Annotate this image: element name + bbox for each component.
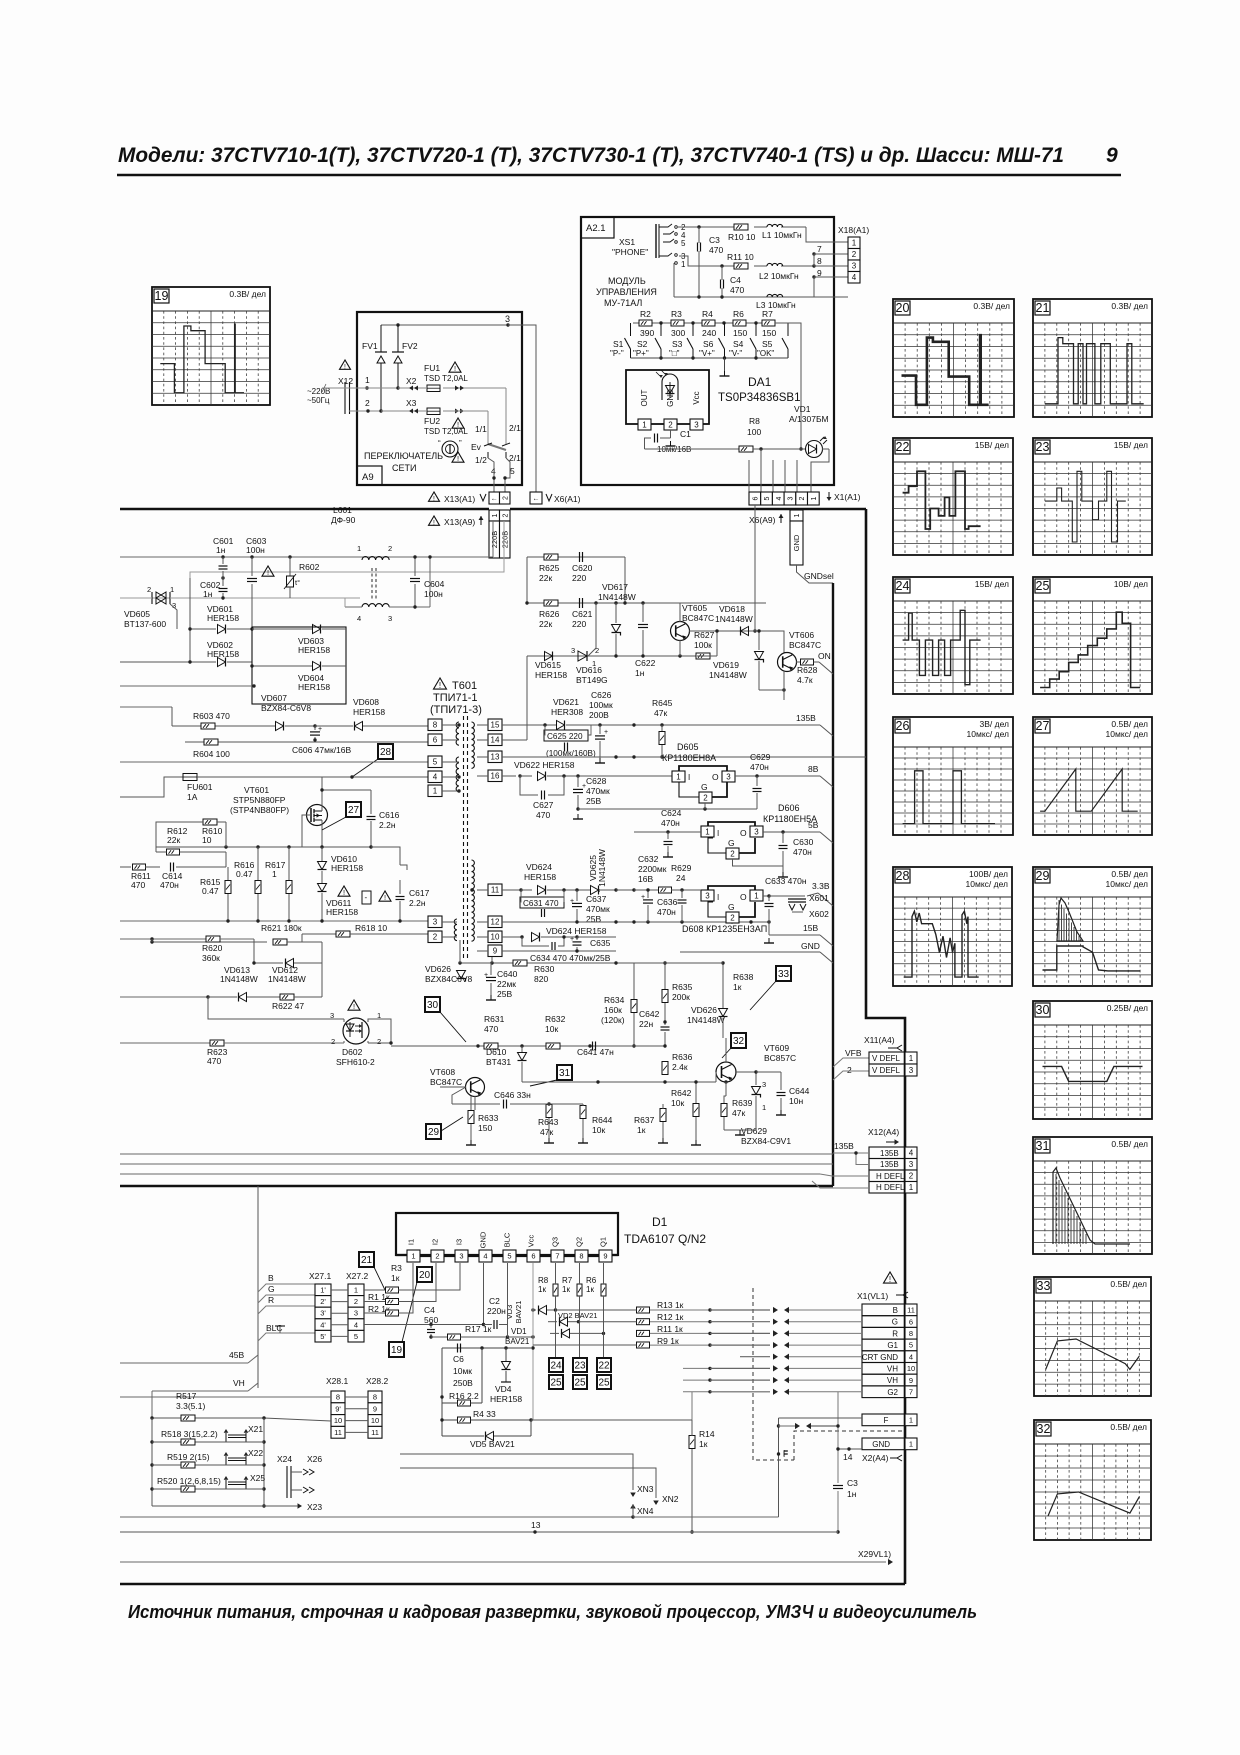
page header title (118, 144, 1064, 167)
svg-text:1к: 1к (538, 1285, 546, 1294)
svg-text:FV2: FV2 (402, 341, 418, 351)
svg-text:11: 11 (334, 1428, 342, 1437)
45V label (120, 1350, 258, 1363)
svg-text:23: 23 (574, 1361, 586, 1372)
svg-text:3: 3 (909, 1066, 914, 1075)
transistor VT605 (666, 603, 714, 641)
svg-text:R621 180к: R621 180к (261, 923, 302, 933)
button S3 (669, 323, 693, 358)
zener VD626a (425, 963, 475, 984)
capacitor C617 (362, 847, 430, 921)
svg-text:V DEFL: V DEFL (872, 1066, 901, 1075)
transformer pin 4 (428, 771, 461, 783)
label VD605 (124, 609, 166, 629)
svg-text:B: B (268, 1273, 274, 1283)
svg-text:R518 3(15,2.2): R518 3(15,2.2) (161, 1429, 218, 1439)
svg-text:TDA6107 Q/N2: TDA6107 Q/N2 (624, 1232, 706, 1246)
svg-text:10: 10 (334, 1416, 342, 1425)
svg-text:9': 9' (335, 1404, 341, 1413)
capacitor C630 (733, 832, 814, 877)
svg-text:0.5В/ дел: 0.5В/ дел (1111, 1139, 1148, 1149)
resistor R12 (579, 1312, 684, 1325)
svg-text:3В/ дел: 3В/ дел (980, 719, 1010, 729)
connector X11(A4) (864, 1035, 917, 1076)
svg-text:220: 220 (572, 573, 586, 583)
svg-text:220н: 220н (487, 1306, 506, 1316)
inductor L2 (759, 263, 799, 281)
svg-text:2.2н: 2.2н (409, 898, 426, 908)
resistor R4 (440, 1409, 532, 1423)
svg-text:R634: R634 (604, 995, 625, 1005)
svg-text:1к: 1к (637, 1125, 646, 1135)
svg-text:1N4148W: 1N4148W (715, 614, 753, 624)
svg-text:2: 2 (799, 496, 806, 500)
svg-text:R627: R627 (694, 630, 715, 640)
svg-text:3: 3 (909, 1160, 914, 1169)
transformer secondary winding upper (472, 722, 475, 768)
svg-text:C620: C620 (572, 563, 593, 573)
connector X2 arrows (406, 376, 464, 390)
svg-text:10к: 10к (592, 1125, 605, 1135)
capacitor C3b (833, 1392, 858, 1534)
svg-text:R620: R620 (202, 943, 223, 953)
diode VD612 (252, 959, 322, 985)
svg-text:1н: 1н (847, 1489, 857, 1499)
svg-text:(ТПИ71-3): (ТПИ71-3) (430, 704, 482, 716)
svg-text:8: 8 (433, 721, 438, 730)
svg-text:C637: C637 (586, 894, 607, 904)
svg-text:5В: 5В (808, 820, 819, 830)
svg-text:5: 5 (909, 1341, 913, 1350)
resistor R626 (539, 600, 560, 629)
svg-text:VD626: VD626 (425, 964, 451, 974)
svg-text:L1 10мкГн: L1 10мкГн (762, 230, 802, 240)
svg-text:3: 3 (433, 918, 438, 927)
svg-text:HER308: HER308 (551, 707, 583, 717)
svg-text:ДФ-90: ДФ-90 (331, 515, 356, 525)
svg-text:BC847C: BC847C (682, 613, 714, 623)
scope waveform box 20 (893, 299, 1014, 417)
capacitor C636 (657, 890, 687, 922)
diode VD611 (318, 884, 359, 922)
svg-text:R636: R636 (672, 1052, 693, 1062)
svg-text:2: 2 (668, 420, 673, 429)
box C631 (520, 890, 564, 917)
connector X1(VL1) table (862, 1304, 917, 1398)
svg-text:4: 4 (909, 1352, 913, 1361)
svg-text:X601: X601 (809, 893, 829, 903)
svg-text:2': 2' (320, 1297, 326, 1306)
svg-text:I1: I1 (407, 1239, 416, 1245)
svg-text:S5: S5 (762, 339, 773, 349)
svg-text:КР1180ЕН8А: КР1180ЕН8А (662, 753, 716, 763)
svg-text:9: 9 (909, 1376, 913, 1385)
svg-text:25: 25 (1036, 579, 1050, 593)
svg-text:R603 470: R603 470 (193, 711, 230, 721)
svg-text:I: I (688, 773, 690, 782)
label BLC (258, 1323, 315, 1344)
svg-text:12: 12 (491, 918, 500, 927)
svg-text:29: 29 (428, 1127, 440, 1138)
svg-text:!: ! (457, 454, 459, 463)
resistor R631 (484, 1014, 505, 1049)
wire row 603 (525, 601, 766, 604)
resistor R620 (120, 936, 254, 963)
wire row 809 (578, 803, 757, 811)
svg-text:VD624 HER158: VD624 HER158 (546, 926, 607, 936)
svg-text:R7: R7 (562, 1276, 573, 1285)
diode VD603 (252, 625, 346, 656)
connector X13(A1) (429, 492, 511, 504)
connector X6(A9) (749, 510, 803, 565)
svg-text:0.5В/ дел: 0.5В/ дел (1111, 719, 1148, 729)
svg-text:VH: VH (887, 1365, 898, 1374)
svg-text:t°: t° (295, 578, 300, 587)
svg-text:C617: C617 (409, 888, 430, 898)
svg-text:DA1: DA1 (748, 375, 772, 389)
svg-text:4: 4 (357, 614, 361, 623)
svg-text:R626: R626 (539, 609, 560, 619)
svg-text:C631 470: C631 470 (523, 899, 559, 908)
svg-text:R637: R637 (634, 1115, 655, 1125)
svg-text:2.4к: 2.4к (672, 1062, 688, 1072)
svg-text:S6: S6 (703, 339, 714, 349)
labels VFB 2 (833, 1048, 869, 1075)
scope waveform box 25 (1033, 577, 1152, 694)
spark gap FV1 (362, 325, 387, 411)
transformer pin 16 (477, 770, 502, 782)
scope waveform box 22 (893, 438, 1013, 555)
resistor R520 (157, 1476, 221, 1492)
svg-text:21: 21 (1036, 301, 1050, 315)
bus line V1 (120, 1153, 833, 1155)
connector X12(A4) (868, 1127, 917, 1193)
svg-text:TS0P34836SB1: TS0P34836SB1 (718, 392, 800, 404)
svg-text:200В: 200В (589, 710, 609, 720)
label VD624 second (546, 926, 607, 936)
optocoupler D602 (330, 1000, 381, 1067)
resistor R10 (728, 224, 756, 242)
jumper X22 (152, 1448, 264, 1465)
svg-text:Источник питания, строчная и к: Источник питания, строчная и кадровая ра… (128, 1602, 977, 1622)
svg-text:VH: VH (233, 1378, 245, 1388)
svg-text:2: 2 (852, 250, 857, 259)
svg-text:F: F (783, 1449, 788, 1459)
svg-text:10мкс/ дел: 10мкс/ дел (966, 879, 1008, 889)
resistor R4 (702, 309, 716, 338)
wire DA1 out (644, 449, 646, 452)
svg-text:100н: 100н (246, 545, 265, 555)
svg-text:0.47: 0.47 (236, 869, 253, 879)
scope waveform box 33 (1034, 1277, 1151, 1396)
svg-text:X18(A1): X18(A1) (838, 225, 869, 235)
svg-text:3: 3 (787, 496, 794, 500)
svg-text:C3: C3 (847, 1478, 858, 1488)
svg-text:4: 4 (433, 773, 438, 782)
svg-text:11: 11 (371, 1428, 379, 1437)
svg-text:9: 9 (603, 1252, 607, 1261)
X23 arrow (264, 1502, 322, 1512)
resistor R517 (176, 1391, 205, 1421)
svg-text:22к: 22к (539, 619, 552, 629)
regulator D605 (662, 742, 735, 803)
transformer primary winding mid (456, 757, 459, 792)
svg-text:C604: C604 (424, 579, 445, 589)
svg-text:1А: 1А (187, 792, 198, 802)
svg-text:1: 1 (909, 1054, 914, 1063)
capacitor C637 (570, 890, 610, 924)
scope tag 33 ref (750, 966, 791, 1010)
wire row 937 (502, 933, 616, 942)
svg-text:1: 1 (705, 827, 710, 836)
capacitor C4 (721, 266, 745, 297)
module name label (596, 276, 657, 308)
svg-text:GND: GND (479, 1231, 488, 1248)
svg-text:G: G (728, 902, 735, 912)
svg-text:G2: G2 (887, 1388, 898, 1397)
capacitor C602 (200, 578, 228, 600)
resistor R1b (364, 1263, 436, 1305)
svg-text:Х12: Х12 (338, 376, 353, 386)
svg-text:"Р-": "Р-" (610, 349, 624, 358)
diode VD608 (315, 697, 428, 731)
mains label 220V 50Hz (307, 387, 330, 405)
svg-text:X13(A9): X13(A9) (444, 517, 475, 527)
svg-text:8: 8 (336, 1393, 340, 1402)
VFB diagonal stubs (833, 1144, 843, 1154)
capacitor C616 (320, 788, 399, 847)
svg-text:2/1: 2/1 (509, 453, 521, 463)
right ladder vertical (262, 1418, 265, 1508)
svg-text:+: + (484, 972, 488, 979)
capacitor C629 (750, 752, 771, 809)
svg-text:1: 1 (354, 1286, 358, 1295)
svg-text:5: 5 (507, 1252, 511, 1261)
svg-text:G: G (268, 1284, 275, 1294)
resistor R7b (562, 1263, 582, 1296)
resistor R11b (637, 1324, 684, 1336)
svg-text:240: 240 (702, 328, 716, 338)
svg-text:470н: 470н (793, 847, 812, 857)
resistor R518 (161, 1429, 218, 1445)
svg-text:1': 1' (320, 1286, 326, 1295)
svg-text:11: 11 (907, 1306, 915, 1315)
svg-text:C634 470 470мк/25В: C634 470 470мк/25В (530, 953, 611, 963)
svg-text:32: 32 (1037, 1422, 1051, 1436)
svg-text:15В/ дел: 15В/ дел (975, 440, 1009, 450)
LED VD1 (789, 404, 829, 458)
DA1 pin labels (640, 389, 701, 407)
svg-text:C625 220: C625 220 (547, 732, 583, 741)
svg-text:11: 11 (491, 886, 500, 895)
svg-text:470: 470 (484, 1024, 498, 1034)
svg-text:24: 24 (896, 579, 910, 593)
wire row 656 (527, 654, 697, 740)
svg-text:1: 1 (365, 375, 370, 385)
svg-text:19: 19 (391, 1345, 403, 1356)
resistor R611 (120, 864, 160, 890)
svg-text:VT606: VT606 (789, 630, 814, 640)
svg-text:D608 КР1235ЕН3АП: D608 КР1235ЕН3АП (682, 924, 767, 934)
X28 row wires (345, 1397, 368, 1432)
svg-text:VD3: VD3 (505, 1305, 514, 1320)
svg-text:R8: R8 (538, 1276, 549, 1285)
power symbol (438, 439, 462, 457)
svg-text:H DEFL: H DEFL (876, 1183, 905, 1192)
svg-text:1/2: 1/2 (475, 455, 487, 465)
svg-text:1: 1 (272, 869, 277, 879)
svg-text:R8: R8 (749, 416, 760, 426)
wire row 951 (502, 949, 616, 952)
svg-text:R618 10: R618 10 (355, 923, 387, 933)
transformer pin 15 (477, 719, 502, 731)
svg-text:2: 2 (147, 585, 151, 594)
svg-text:+: + (570, 936, 574, 943)
svg-text:6: 6 (752, 496, 759, 500)
svg-text:СЕТИ: СЕТИ (392, 463, 416, 473)
transformer pin 2 (428, 931, 457, 943)
GNDsel wire (797, 565, 834, 583)
label X2(A4) (862, 1453, 902, 1463)
rectifier bridge box (252, 627, 346, 704)
svg-text:1: 1 (170, 585, 174, 594)
svg-text:C6: C6 (453, 1354, 464, 1364)
svg-text:-: - (365, 893, 368, 902)
svg-text:VT601: VT601 (244, 785, 269, 795)
zener VD617 (598, 582, 636, 656)
svg-text:10к: 10к (671, 1098, 684, 1108)
wire XN3 (400, 1454, 654, 1497)
label VD622 (514, 760, 575, 770)
svg-text:23: 23 (1036, 440, 1050, 454)
wire audio row2 (679, 256, 816, 268)
transformer pin 9 (477, 945, 502, 957)
svg-text:8: 8 (817, 256, 822, 266)
svg-text:3: 3 (571, 646, 575, 655)
keyboard right vertical (775, 323, 803, 451)
resistor R643 (538, 1102, 559, 1143)
switch Ev (471, 423, 521, 465)
svg-text:X24: X24 (277, 1454, 292, 1464)
svg-text:CRT GND: CRT GND (862, 1353, 898, 1362)
svg-text:5: 5 (510, 466, 515, 476)
svg-text:3: 3 (354, 1309, 358, 1318)
svg-text:31: 31 (559, 1068, 571, 1079)
svg-text:C644: C644 (789, 1086, 810, 1096)
svg-text:BAV21: BAV21 (514, 1301, 523, 1324)
resistor R627 (694, 630, 755, 659)
capacitor C633 (763, 876, 807, 922)
transformer pin 12 (477, 916, 502, 928)
MOSFET VT601 (230, 777, 328, 847)
svg-text:C622: C622 (635, 658, 656, 668)
svg-text:"□": "□" (669, 349, 680, 358)
svg-text:3: 3 (459, 1252, 463, 1261)
svg-text:VD1: VD1 (794, 404, 811, 414)
diode VD615 (535, 652, 567, 681)
svg-text:VD617: VD617 (602, 582, 628, 592)
svg-text:X602: X602 (809, 909, 829, 919)
svg-text:D602: D602 (342, 1047, 363, 1057)
svg-text:31: 31 (1036, 1139, 1050, 1153)
svg-text:R642: R642 (671, 1088, 692, 1098)
resistor R639 (721, 1096, 753, 1130)
scope waveform box 21 (1033, 299, 1152, 417)
snubber bottom rail (120, 919, 428, 922)
jumper X21 (152, 1424, 264, 1442)
svg-text:10: 10 (371, 1416, 379, 1425)
wire row 963 (458, 940, 648, 965)
X27 row wires (331, 1290, 348, 1336)
capacitor C640 (484, 963, 518, 1000)
label X29VL1 (120, 1549, 893, 1565)
warning triangle X1VL1 (884, 1272, 897, 1284)
wire filter to bridge (345, 555, 432, 607)
svg-text:G: G (728, 838, 735, 848)
svg-text:"PHONE": "PHONE" (612, 247, 648, 257)
svg-text:4.7к: 4.7к (797, 675, 813, 685)
svg-text:1н: 1н (635, 668, 645, 678)
resistor R17 (431, 1324, 509, 1340)
svg-text:C636: C636 (657, 897, 678, 907)
svg-text:S4: S4 (733, 339, 744, 349)
label B (258, 1273, 315, 1292)
svg-text:R517: R517 (176, 1391, 197, 1401)
dashed CRT box (753, 1288, 903, 1460)
button S1 (610, 323, 631, 358)
svg-text:220В: 220В (500, 531, 509, 549)
svg-text:BT137-600: BT137-600 (124, 619, 166, 629)
resistor R634 (601, 963, 637, 1048)
svg-text:10н: 10н (789, 1096, 803, 1106)
wire pin14 to vert (502, 739, 527, 741)
svg-text:10В/ дел: 10В/ дел (1114, 579, 1148, 589)
svg-text:9: 9 (493, 947, 498, 956)
svg-text:I: I (717, 893, 719, 902)
svg-text:28: 28 (380, 747, 392, 758)
svg-text:22мк: 22мк (497, 979, 516, 989)
svg-text:HER158: HER158 (326, 907, 358, 917)
diode VD621 (551, 697, 583, 730)
svg-text:1N4148W: 1N4148W (220, 974, 258, 984)
svg-text:X25: X25 (250, 1473, 265, 1483)
svg-text:HER158: HER158 (353, 707, 385, 717)
diode VD626b (687, 961, 728, 1038)
resistor R623 (120, 1040, 393, 1066)
svg-text:R631: R631 (484, 1014, 505, 1024)
svg-text:VD1: VD1 (511, 1327, 527, 1336)
resistor R519 (167, 1452, 210, 1468)
svg-text:360к: 360к (202, 953, 220, 963)
board label A2.1 (581, 217, 614, 238)
svg-text:!: ! (433, 519, 435, 526)
svg-text:R644: R644 (592, 1115, 613, 1125)
wire row 1418 R517 (150, 1416, 331, 1421)
svg-text:470: 470 (207, 1056, 221, 1066)
resistor R3b (364, 1263, 460, 1293)
svg-text:X22: X22 (248, 1448, 263, 1458)
svg-text:26: 26 (896, 719, 910, 733)
main board top edge (120, 508, 866, 511)
scope tag 19 ref (389, 1342, 404, 1357)
wires Q pins to tags (556, 1296, 604, 1360)
svg-text:ТПИ71-1: ТПИ71-1 (433, 692, 478, 704)
capacitor C604 (410, 555, 445, 608)
svg-text:BC847C: BC847C (789, 640, 821, 650)
svg-text:R13 1к: R13 1к (657, 1300, 684, 1310)
button S6 (699, 323, 725, 358)
svg-text:20: 20 (419, 1270, 431, 1281)
